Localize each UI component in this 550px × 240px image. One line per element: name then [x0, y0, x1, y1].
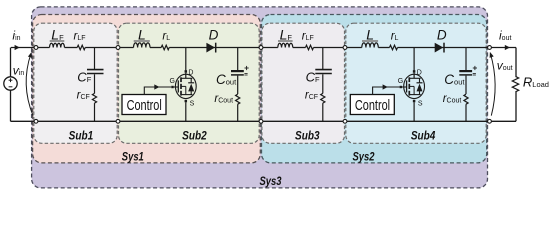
voltage arc v_in — [26, 54, 33, 116]
resistor r_L (Sub2) — [161, 45, 169, 50]
capacitor C_F (Sub3) — [315, 70, 332, 74]
wire left rail upper — [10, 48, 12, 77]
subsystem box Sub1 — [34, 23, 117, 143]
system box Sys1 — [33, 15, 261, 163]
subsystem box Sub2 — [119, 23, 260, 143]
svg-text:Sys3: Sys3 — [260, 175, 282, 188]
svg-text:Sys1: Sys1 — [122, 151, 144, 164]
gate drive arrow (Sub2) — [154, 84, 159, 89]
wire C_F branch upper (Sub1) — [94, 48, 96, 70]
wire top segment 6 — [293, 47, 306, 49]
svg-text:L: L — [366, 27, 374, 43]
wire C_out branch middle (Sub4) — [465, 76, 467, 94]
wire gate drive (Sub4) — [373, 87, 400, 95]
svg-text:S: S — [418, 100, 423, 107]
voltage source Vin — [4, 77, 17, 90]
node bottom x=36 — [34, 119, 38, 123]
capacitor C_out (Sub4) — [459, 66, 477, 75]
resistor r_CF (Sub1) — [92, 93, 96, 103]
gate drive arrow (Sub4) — [383, 84, 388, 89]
svg-text:Control: Control — [355, 97, 390, 114]
wire right rail lower — [515, 92, 517, 122]
wire top segment 2 — [65, 47, 78, 49]
wire top segment 7 — [314, 47, 362, 49]
svg-text:Control: Control — [127, 97, 162, 114]
wire C_out branch middle (Sub2) — [237, 76, 239, 94]
inductor L (Sub2) — [134, 40, 150, 47]
wire top segment 4 — [150, 47, 161, 49]
wire right rail upper — [515, 48, 517, 77]
node bottom x=118 — [116, 119, 120, 123]
wire left rail lower — [10, 90, 12, 121]
subsystem box Sub4 — [346, 23, 486, 143]
resistor r_LF (Sub3) — [306, 45, 314, 50]
node top x=36 — [34, 46, 38, 50]
svg-text:L: L — [138, 27, 146, 43]
wire bottom rail — [11, 120, 517, 122]
resistor r_L (Sub4) — [390, 45, 398, 50]
resistor r_LF (Sub1) — [77, 45, 85, 50]
svg-text:D: D — [209, 28, 219, 43]
inductor L_F (Sub3) — [278, 40, 293, 47]
wire C_out branch upper (Sub2) — [237, 48, 239, 71]
svg-text:Sys2: Sys2 — [353, 151, 375, 164]
node top x=261 — [259, 46, 263, 50]
control block (Sub2) — [122, 95, 166, 115]
svg-text:Sub4: Sub4 — [411, 129, 436, 143]
svg-text:D: D — [437, 28, 447, 43]
inductor L_F (Sub1) — [50, 40, 65, 47]
node top x=345 — [343, 46, 347, 50]
svg-text:S: S — [190, 100, 195, 107]
wire C_F branch upper (Sub3) — [322, 48, 324, 70]
wire C_F branch middle (Sub1) — [94, 74, 96, 93]
wire C_F branch middle (Sub3) — [322, 74, 324, 93]
wire gate drive (Sub2) — [144, 87, 171, 95]
resistor R_Load — [512, 76, 518, 91]
capacitor C_F (Sub1) — [87, 70, 104, 74]
svg-text:G: G — [398, 78, 403, 85]
node bottom x=261 — [259, 119, 263, 123]
svg-text:Sub2: Sub2 — [182, 129, 207, 143]
svg-text:D: D — [417, 69, 422, 76]
wire C_out branch lower (Sub2) — [237, 104, 239, 121]
wire source branch (Sub2) — [185, 102, 187, 121]
system box Sys2 — [262, 15, 487, 163]
svg-text:G: G — [169, 78, 174, 85]
wire drain branch (Sub2) — [185, 48, 187, 73]
diode D (Sub4) — [435, 43, 444, 53]
transistor Q MOSFET (Sub4) — [400, 70, 425, 102]
system box Sys3 — [32, 7, 488, 188]
node bottom x=345 — [343, 119, 347, 123]
current arrow i_out — [505, 45, 510, 50]
wire C_out branch upper (Sub4) — [465, 48, 467, 71]
resistor r_Cout (Sub4) — [464, 94, 468, 104]
control block (Sub4) — [350, 95, 394, 115]
svg-text:Sub1: Sub1 — [69, 128, 94, 142]
voltage arc v_out — [490, 54, 495, 116]
current arrow i_in — [15, 45, 20, 50]
wire top segment 5 — [169, 47, 278, 49]
wire C_out branch lower (Sub4) — [465, 104, 467, 121]
resistor r_Cout (Sub2) — [236, 94, 240, 104]
diode D (Sub2) — [206, 43, 215, 53]
svg-text:D: D — [188, 69, 193, 76]
node top x=489.5 — [488, 46, 492, 50]
svg-text:Sub3: Sub3 — [295, 128, 320, 142]
subsystem box Sub3 — [262, 23, 345, 143]
transistor Q MOSFET (Sub2) — [171, 70, 196, 102]
node top x=118 — [116, 46, 120, 50]
wire top segment 8 — [378, 47, 389, 49]
wire drain branch (Sub4) — [413, 48, 415, 73]
wire top segment 3 — [85, 47, 133, 49]
wire top segment 1 — [11, 47, 50, 49]
wire C_F branch lower (Sub3) — [322, 103, 324, 121]
wire source branch (Sub4) — [413, 102, 415, 121]
wire top segment 9 — [398, 47, 517, 49]
wire C_F branch lower (Sub1) — [94, 103, 96, 121]
capacitor C_out (Sub2) — [231, 66, 249, 75]
resistor r_CF (Sub3) — [321, 93, 325, 103]
inductor L (Sub4) — [362, 40, 378, 47]
node bottom x=489.5 — [488, 119, 492, 123]
